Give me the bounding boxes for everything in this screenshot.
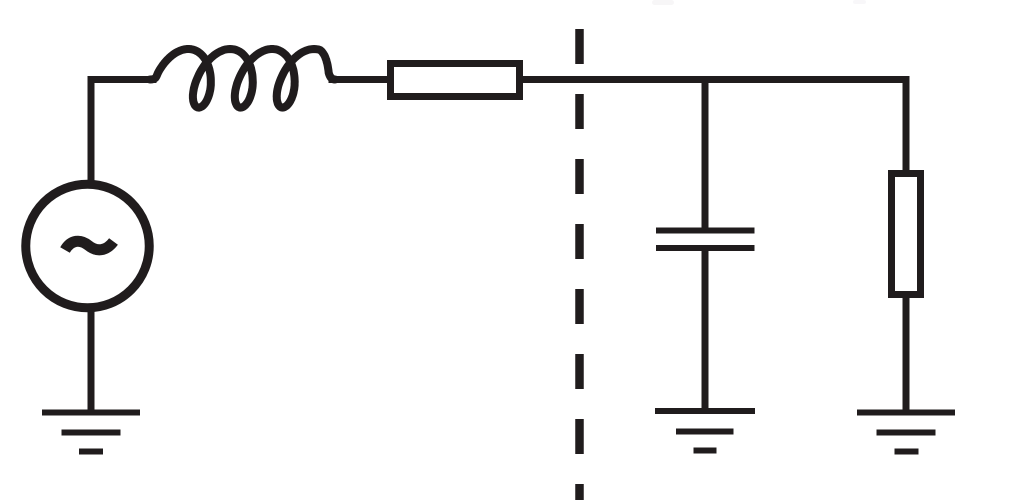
wire: source bottom to ground bbox=[88, 310, 95, 410]
wire: inductor to resistor R1 bbox=[332, 76, 389, 83]
capacitor C1 bottom plate bbox=[656, 245, 755, 251]
inductor L1 (coil) bbox=[150, 49, 335, 108]
ground (source) bbox=[42, 413, 140, 452]
AC source V1 (circle) bbox=[26, 184, 150, 308]
ground (load) bbox=[857, 413, 955, 452]
capacitor C1 top plate bbox=[656, 228, 755, 234]
wire: capacitor to ground bbox=[702, 251, 709, 409]
wire: resistor R2 to ground bbox=[903, 298, 910, 410]
wire: source top to inductor lead bbox=[91, 80, 153, 183]
node A: junction wire down to capacitor C1 bbox=[702, 80, 709, 229]
AC source tilde symbol bbox=[65, 241, 114, 250]
faint top smudge left bbox=[652, 0, 674, 5]
ground (capacitor) bbox=[655, 411, 755, 451]
faint top smudge right bbox=[853, 0, 866, 4]
resistor R2 (load, vertical) bbox=[892, 174, 921, 295]
resistor R1 (series, horizontal) bbox=[391, 64, 520, 97]
wire: resistor R1 right lead to corner and down to R2 bbox=[523, 80, 906, 173]
dashed boundary line bbox=[575, 29, 584, 500]
